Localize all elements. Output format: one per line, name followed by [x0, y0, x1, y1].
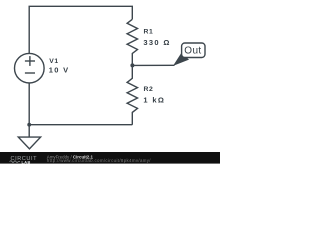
wire: bottom rail: [29, 124, 132, 126]
svg-text:R1: R1: [144, 29, 154, 36]
wire: V1 bottom to ground node: [28, 83, 30, 125]
resistor R2: [127, 65, 137, 124]
svg-text:LAB: LAB: [22, 160, 31, 164]
minus sign: [25, 72, 35, 74]
node Out flag box: [182, 43, 205, 58]
svg-text:Out: Out: [184, 46, 201, 57]
voltage source V1: [14, 53, 44, 83]
ground: [28, 125, 30, 137]
wire: top rail from V1 top to R1 top: [29, 6, 132, 53]
svg-text:V1: V1: [49, 58, 59, 65]
plus sign: [25, 60, 35, 62]
svg-text:R2: R2: [144, 86, 154, 93]
node Out flag tail: [173, 53, 189, 66]
svg-text:10 V: 10 V: [49, 65, 70, 74]
svg-text:330 Ω: 330 Ω: [143, 38, 170, 47]
wire: junction to Out flag: [132, 64, 174, 66]
node junction at ground: [27, 123, 31, 127]
resistor R1: [127, 19, 137, 65]
footer bar: [0, 152, 220, 164]
node junction between R1 and R2: [130, 63, 134, 67]
svg-text:1 kΩ: 1 kΩ: [143, 95, 165, 104]
svg-text:http://www.circuitlab.com/circ: http://www.circuitlab.com/circuit/8pk4mv…: [47, 158, 152, 163]
